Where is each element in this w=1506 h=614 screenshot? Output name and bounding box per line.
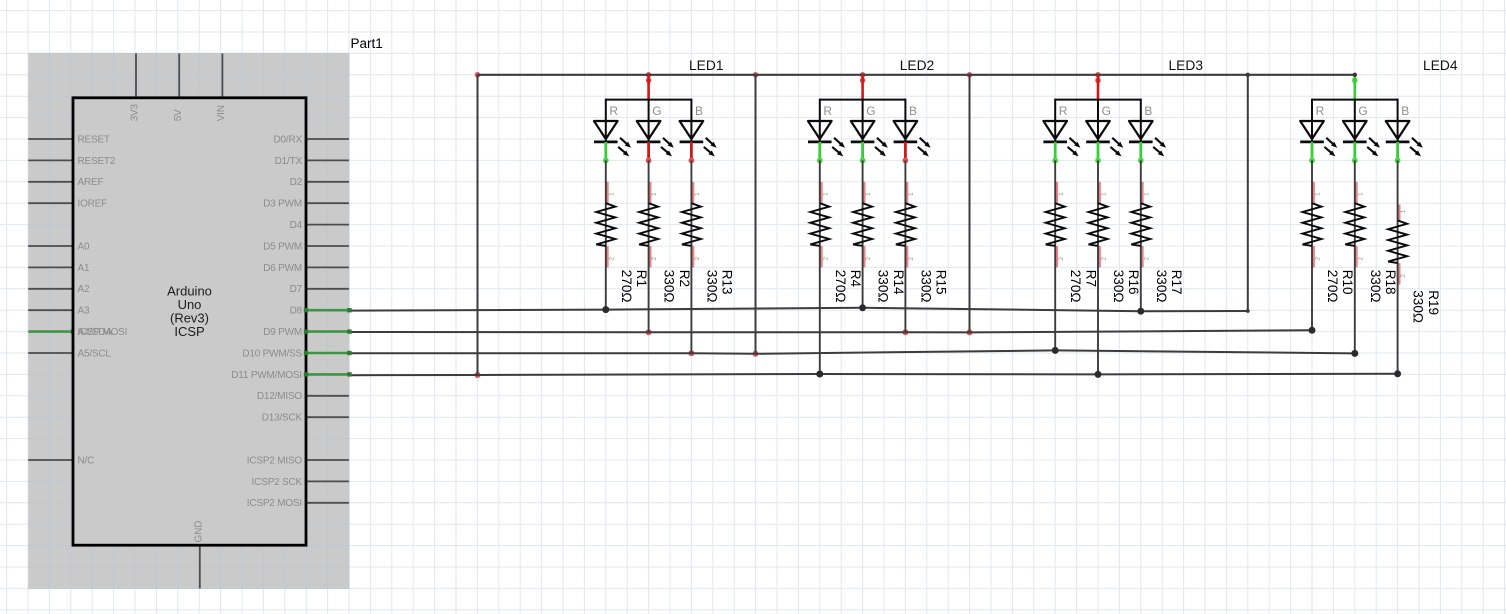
svg-text:B: B: [1144, 104, 1152, 118]
svg-text:1: 1: [822, 192, 829, 196]
svg-text:LED4: LED4: [1423, 58, 1458, 73]
svg-text:A2: A2: [78, 284, 90, 295]
svg-text:ICSP: ICSP: [174, 324, 204, 339]
svg-text:1: 1: [1400, 209, 1407, 213]
svg-text:Part1: Part1: [351, 36, 383, 51]
svg-text:1: 1: [1058, 192, 1065, 196]
svg-text:ICSP2 SCK: ICSP2 SCK: [252, 477, 303, 488]
svg-text:G: G: [1358, 104, 1367, 118]
svg-text:5V: 5V: [173, 109, 184, 121]
svg-text:2: 2: [694, 257, 701, 261]
svg-text:2: 2: [1315, 257, 1322, 261]
svg-text:1: 1: [908, 192, 915, 196]
svg-text:D13/SCK: D13/SCK: [262, 413, 303, 424]
svg-text:VIN: VIN: [216, 105, 227, 121]
svg-text:A3: A3: [78, 306, 90, 317]
svg-text:3V3: 3V3: [130, 103, 141, 121]
svg-text:D0/RX: D0/RX: [274, 134, 303, 145]
svg-text:D4: D4: [290, 220, 303, 231]
svg-text:1: 1: [865, 192, 872, 196]
svg-text:N/C: N/C: [78, 455, 95, 466]
svg-text:2: 2: [1101, 257, 1108, 261]
svg-text:D8: D8: [290, 306, 303, 317]
svg-text:B: B: [1401, 104, 1409, 118]
svg-text:2: 2: [651, 257, 658, 261]
svg-text:2: 2: [608, 257, 615, 261]
svg-text:2: 2: [908, 257, 915, 261]
svg-text:R: R: [1316, 104, 1325, 118]
svg-text:2: 2: [1400, 274, 1407, 278]
svg-text:D9 PWM: D9 PWM: [263, 327, 302, 338]
svg-text:2: 2: [865, 257, 872, 261]
svg-text:1: 1: [1143, 192, 1150, 196]
svg-text:2: 2: [1058, 257, 1065, 261]
svg-text:LED2: LED2: [900, 58, 935, 73]
svg-text:LED1: LED1: [689, 58, 724, 73]
svg-text:G: G: [652, 104, 661, 118]
svg-text:R: R: [1059, 104, 1068, 118]
svg-text:ICSP2 MISO: ICSP2 MISO: [247, 455, 303, 466]
svg-text:B: B: [909, 104, 917, 118]
svg-text:1: 1: [1101, 192, 1108, 196]
svg-text:R: R: [609, 104, 618, 118]
svg-text:2: 2: [822, 257, 829, 261]
svg-text:D1/TX: D1/TX: [275, 156, 303, 167]
svg-text:IOREF: IOREF: [78, 199, 108, 210]
svg-text:1: 1: [1315, 192, 1322, 196]
svg-text:AREF: AREF: [78, 177, 104, 188]
svg-text:B: B: [695, 104, 703, 118]
svg-text:G: G: [866, 104, 875, 118]
svg-text:D5 PWM: D5 PWM: [263, 241, 302, 252]
svg-text:ICSP MOSI: ICSP MOSI: [78, 327, 128, 338]
svg-text:A1: A1: [78, 263, 90, 274]
svg-text:RESET2: RESET2: [78, 156, 116, 167]
svg-text:A5/SCL: A5/SCL: [78, 348, 112, 359]
svg-text:ICSP2 MOSI: ICSP2 MOSI: [247, 498, 302, 509]
svg-text:D3 PWM: D3 PWM: [263, 199, 302, 210]
svg-text:D12/MISO: D12/MISO: [257, 391, 303, 402]
svg-text:1: 1: [608, 192, 615, 196]
svg-text:D2: D2: [290, 177, 303, 188]
svg-text:1: 1: [1357, 192, 1364, 196]
svg-text:R: R: [823, 104, 832, 118]
svg-text:2: 2: [1357, 257, 1364, 261]
svg-text:1: 1: [694, 192, 701, 196]
svg-text:GND: GND: [194, 521, 205, 543]
svg-text:D6 PWM: D6 PWM: [263, 263, 302, 274]
svg-text:RESET: RESET: [78, 134, 110, 145]
svg-text:D11 PWM/MOSI: D11 PWM/MOSI: [231, 370, 302, 381]
svg-text:2: 2: [1143, 257, 1150, 261]
svg-text:LED3: LED3: [1169, 58, 1204, 73]
svg-text:D10 PWM/SS: D10 PWM/SS: [242, 348, 302, 359]
svg-text:A0: A0: [78, 241, 90, 252]
svg-text:1: 1: [651, 192, 658, 196]
svg-text:D7: D7: [290, 284, 303, 295]
svg-text:G: G: [1102, 104, 1111, 118]
